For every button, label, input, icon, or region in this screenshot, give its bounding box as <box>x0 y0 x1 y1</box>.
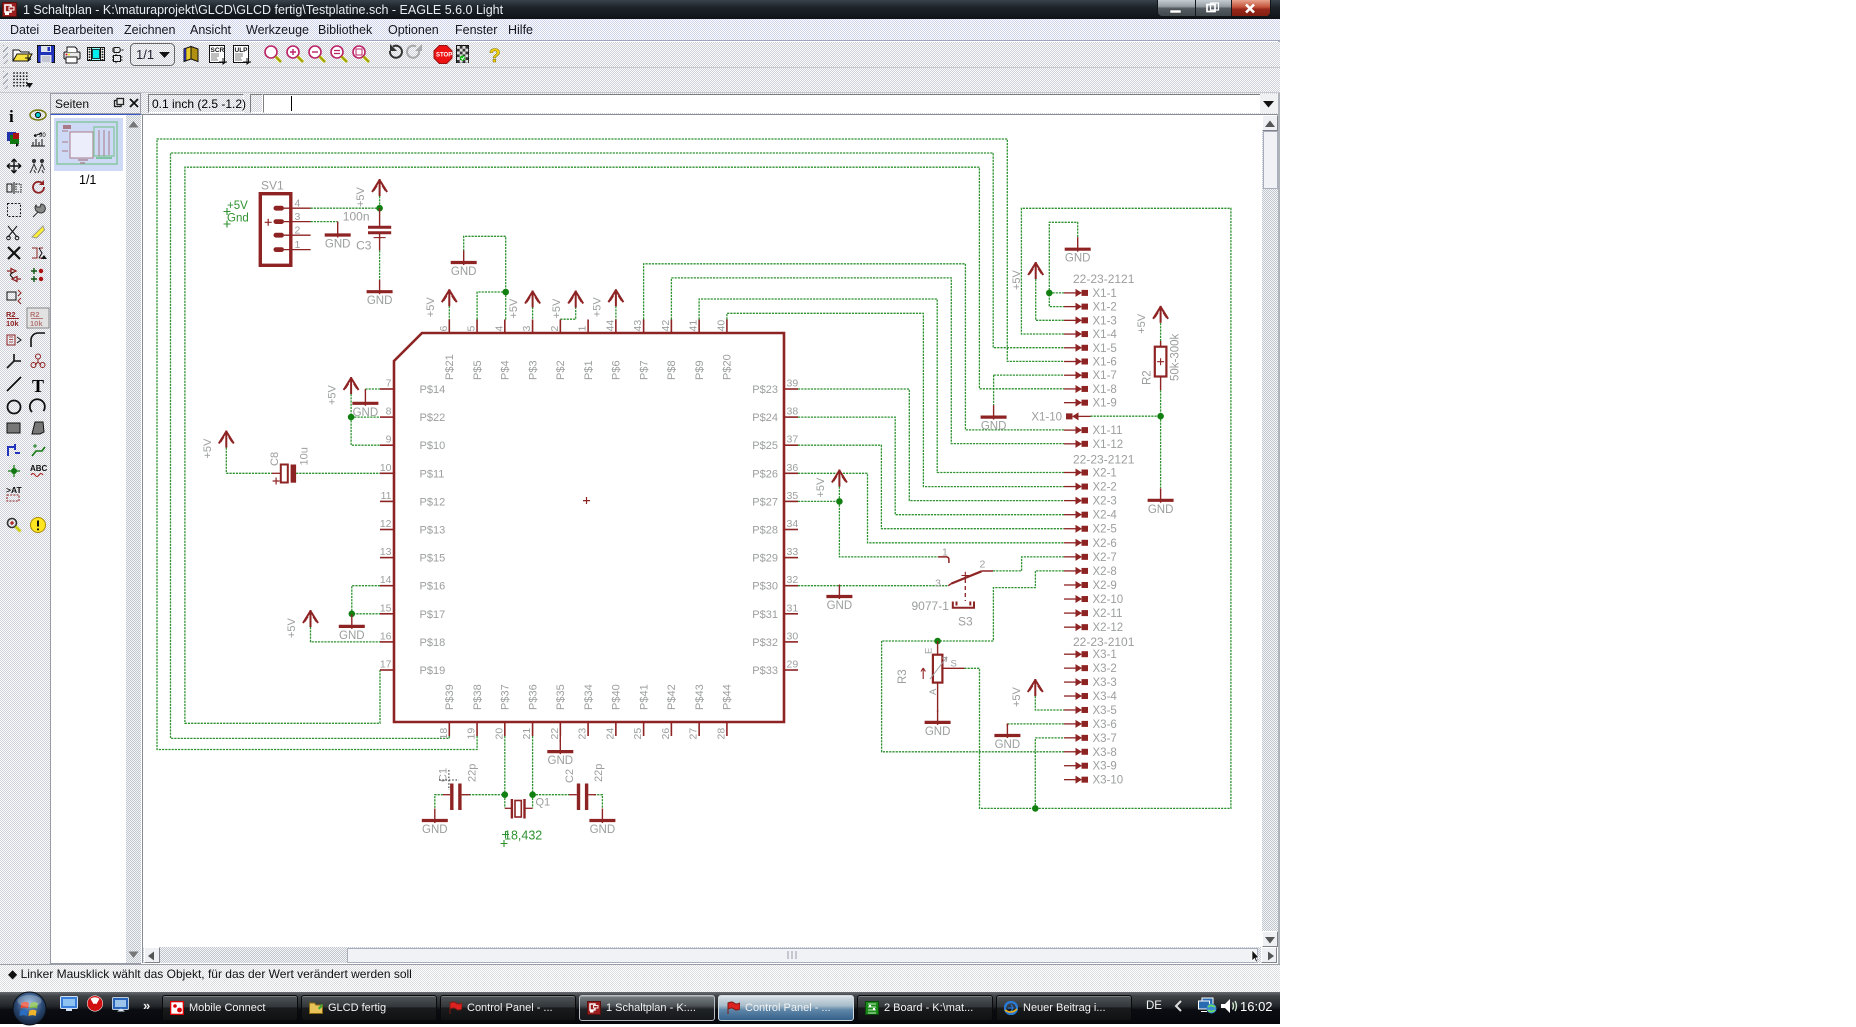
svg-text:X1-12: X1-12 <box>1093 439 1124 451</box>
svg-text:P$30: P$30 <box>752 581 778 593</box>
svg-text:14: 14 <box>380 574 392 586</box>
svg-text:P$26: P$26 <box>752 468 778 480</box>
ground at P$17 <box>339 614 365 642</box>
svg-text:X3-10: X3-10 <box>1093 775 1124 787</box>
svg-text:GND: GND <box>367 295 393 307</box>
+5V supply at P$22 <box>327 377 359 405</box>
svg-text:X2-10: X2-10 <box>1093 594 1124 606</box>
pin stubs U1 bottom <box>438 684 734 739</box>
svg-text:GND: GND <box>827 600 853 612</box>
svg-text:P$17: P$17 <box>420 609 446 621</box>
svg-text:R2: R2 <box>6 310 16 319</box>
+5V supply at P$2 <box>551 291 583 319</box>
svg-text:4: 4 <box>295 198 301 210</box>
junction GND P$17 <box>349 611 356 618</box>
svg-text:R2: R2 <box>30 310 40 319</box>
svg-text:X3-8: X3-8 <box>1093 747 1117 759</box>
svg-text:7: 7 <box>386 378 392 390</box>
+5V supply at X1-3 <box>1011 262 1043 290</box>
wire C3 to ground <box>379 250 381 280</box>
svg-text:P$5: P$5 <box>472 360 484 380</box>
+5V supply near P$27 <box>815 470 847 498</box>
junction V0 <box>1032 805 1039 812</box>
svg-text:i: i <box>9 107 14 126</box>
svg-text:GND: GND <box>451 266 477 278</box>
svg-text:S: S <box>951 659 957 670</box>
svg-text:X3-4: X3-4 <box>1093 691 1118 703</box>
wire net +5V P$21 <box>448 306 450 320</box>
capacitor C8 10u electrolytic <box>269 447 311 484</box>
wire net GND X3-6 <box>1007 723 1064 725</box>
svg-text:P$22: P$22 <box>420 412 446 424</box>
svg-text:P$33: P$33 <box>752 665 778 677</box>
capacitor C1 22p <box>438 764 479 810</box>
junction SV1-4 <box>376 205 383 212</box>
wire net GND SV1-3 <box>311 221 338 223</box>
+5V supply at X3-5 <box>1011 679 1043 707</box>
svg-text:X1-10: X1-10 <box>1031 411 1062 423</box>
svg-text:P$15: P$15 <box>420 553 446 565</box>
ground below C2 <box>589 809 615 837</box>
capacitor C3 100n <box>343 208 391 252</box>
svg-text:9077-1: 9077-1 <box>912 599 950 613</box>
svg-text:X3-1: X3-1 <box>1093 649 1117 661</box>
svg-text:X2-9: X2-9 <box>1093 580 1117 592</box>
svg-text:100n: 100n <box>343 210 370 224</box>
svg-text:3: 3 <box>935 578 941 590</box>
svg-text:24: 24 <box>604 728 616 740</box>
svg-text:25: 25 <box>632 728 644 740</box>
svg-text:1: 1 <box>577 326 589 332</box>
svg-text:X3-2: X3-2 <box>1093 663 1117 675</box>
ground above X1 <box>1065 237 1091 265</box>
svg-text:20: 20 <box>493 728 505 740</box>
transistor S3 switch 9077-1 <box>912 547 994 629</box>
svg-text:P$25: P$25 <box>752 440 778 452</box>
svg-text:43: 43 <box>632 320 644 332</box>
svg-text:>AT: >AT <box>6 485 22 495</box>
svg-text:GND: GND <box>925 726 951 738</box>
svg-text:T: T <box>32 376 44 396</box>
svg-text:38: 38 <box>787 406 799 418</box>
svg-text:18: 18 <box>438 728 450 740</box>
svg-text:+5V: +5V <box>202 438 214 459</box>
svg-text:3: 3 <box>521 326 533 332</box>
svg-text:P$12: P$12 <box>420 496 446 508</box>
svg-text:X3-9: X3-9 <box>1093 761 1117 773</box>
svg-text:X2-7: X2-7 <box>1093 552 1117 564</box>
wire C2 to ground <box>594 795 602 809</box>
svg-text:P$42: P$42 <box>666 684 678 710</box>
+5V supply at P$21 <box>425 289 457 317</box>
svg-text:X1-9: X1-9 <box>1093 398 1117 410</box>
wire net XTAL1 P$37 to Q1/C1 <box>504 736 506 795</box>
svg-text:Gnd: Gnd <box>227 213 249 225</box>
svg-text:1/1: 1/1 <box>136 47 154 62</box>
connector X1 22-23-2121 <box>1031 272 1134 451</box>
svg-text:34: 34 <box>787 518 799 530</box>
svg-text:X1-5: X1-5 <box>1093 343 1117 355</box>
svg-text:ABC: ABC <box>30 464 48 473</box>
ground at X1-7 <box>981 405 1007 433</box>
svg-text:22-23-2121: 22-23-2121 <box>1073 272 1135 286</box>
svg-text:15: 15 <box>380 602 392 614</box>
svg-text:16: 16 <box>380 630 392 642</box>
svg-text:P$32: P$32 <box>752 637 778 649</box>
svg-text:P$31: P$31 <box>752 609 778 621</box>
svg-text:P$29: P$29 <box>752 553 778 565</box>
svg-text:32: 32 <box>787 574 799 586</box>
svg-text:X2-6: X2-6 <box>1093 538 1117 550</box>
svg-text:X2-11: X2-11 <box>1093 608 1123 620</box>
svg-text:10k: 10k <box>30 319 43 328</box>
svg-text:22-23-2121: 22-23-2121 <box>1073 453 1135 467</box>
svg-text:X1-6: X1-6 <box>1093 357 1117 369</box>
ground at SV1-3 <box>325 223 351 251</box>
svg-text:P$7: P$7 <box>638 360 650 380</box>
wire net P$20 pin40 to X2-2 <box>727 313 1064 486</box>
junction +5V P$22 <box>348 414 355 421</box>
svg-text:?: ? <box>489 46 501 67</box>
svg-text:P$1: P$1 <box>583 360 595 380</box>
svg-text:41: 41 <box>688 320 700 332</box>
svg-text:X3-5: X3-5 <box>1093 705 1117 717</box>
svg-text:37: 37 <box>787 434 799 446</box>
svg-text:1: 1 <box>295 239 301 251</box>
svg-text:1: 1 <box>942 547 948 559</box>
pin stubs U1 right <box>752 378 798 678</box>
svg-text:C2: C2 <box>564 769 576 783</box>
svg-text:18,432: 18,432 <box>504 829 542 843</box>
svg-text:+5V: +5V <box>591 297 603 318</box>
svg-text:X1-11: X1-11 <box>1093 425 1123 437</box>
svg-text:31: 31 <box>787 602 799 614</box>
svg-text:39: 39 <box>787 378 799 390</box>
svg-text:R3: R3 <box>897 669 909 684</box>
wire net N$4 X1-10 R2 <box>1091 415 1161 417</box>
node +5V label at SV1 <box>224 200 249 215</box>
svg-text:GND: GND <box>981 421 1007 433</box>
wire net XTAL2 P$36 to Q1/C2 <box>532 736 534 795</box>
svg-text:P$14: P$14 <box>420 384 446 396</box>
+5V supply above C3 <box>355 179 387 207</box>
wire net P$9 pin41 to X2-1 <box>699 299 1064 473</box>
svg-text:X1-4: X1-4 <box>1093 329 1118 341</box>
svg-text:P$16: P$16 <box>420 581 446 593</box>
svg-text:X2-2: X2-2 <box>1093 482 1117 494</box>
svg-text:P$20: P$20 <box>722 354 734 380</box>
svg-text:GND: GND <box>590 824 616 836</box>
svg-text:8: 8 <box>386 406 392 418</box>
ground below P$30 wire <box>826 585 852 613</box>
svg-text:36: 36 <box>787 462 799 474</box>
+5V supply at P$3 <box>508 291 540 319</box>
wire net +5V X1-3 <box>1036 279 1064 320</box>
svg-text:X2-4: X2-4 <box>1093 510 1118 522</box>
junction XTAL2 <box>529 791 536 798</box>
wire net +5V P$18 <box>311 627 381 642</box>
wire net +5V P$22 P$10 <box>350 394 352 417</box>
resistor R2 50k-300k <box>1142 333 1182 390</box>
wire net +5V P$27 S3 pin1 <box>798 500 839 502</box>
wire net +5V P$6 <box>615 306 617 320</box>
svg-text:+5V: +5V <box>1136 313 1148 334</box>
wire net GND X1-7 <box>994 374 1064 376</box>
svg-text:Q1: Q1 <box>536 797 551 809</box>
svg-text:C3: C3 <box>356 239 372 253</box>
ground at P$14 <box>352 391 378 419</box>
svg-text:P$4: P$4 <box>500 360 512 380</box>
value label 18,432 <box>501 829 543 848</box>
svg-text:STOP: STOP <box>436 53 452 59</box>
svg-text:GND: GND <box>422 824 448 836</box>
svg-text:22-23-2101: 22-23-2101 <box>1073 635 1135 649</box>
svg-text:P$19: P$19 <box>420 665 446 677</box>
svg-text:+5V: +5V <box>1011 269 1023 290</box>
svg-text:+5V: +5V <box>327 384 339 405</box>
svg-text:40: 40 <box>715 320 727 332</box>
svg-text:+5V: +5V <box>286 617 298 638</box>
svg-text:+5V: +5V <box>355 186 367 207</box>
svg-text:P$41: P$41 <box>638 684 650 710</box>
svg-text:P$11: P$11 <box>420 468 445 480</box>
node Gnd label at SV1 <box>224 213 249 228</box>
wire net P$8 pin42 to X1-12 <box>671 278 1064 444</box>
svg-text:P$36: P$36 <box>527 684 539 710</box>
+5V supply at P$18 <box>286 610 318 638</box>
svg-text:+5V: +5V <box>425 297 437 318</box>
ground at X3-6 <box>994 724 1020 752</box>
svg-text:35: 35 <box>787 490 799 502</box>
svg-text:P$21: P$21 <box>444 354 456 380</box>
wire net GND P$5 P$4 <box>477 292 506 320</box>
wire net N$6 outer frame P$38 to X1-6 <box>157 139 1064 750</box>
svg-text:X1-3: X1-3 <box>1093 315 1117 327</box>
connector X2 22-23-2121 <box>1064 453 1135 635</box>
junction GND P$4 <box>502 289 509 296</box>
svg-text:6: 6 <box>438 326 450 332</box>
svg-text:19: 19 <box>466 728 478 740</box>
svg-text:22p: 22p <box>467 764 479 782</box>
wire net GND P$16 P$17 <box>352 586 380 614</box>
svg-text:X1-1: X1-1 <box>1093 288 1117 300</box>
svg-text:GND: GND <box>995 739 1021 751</box>
wire net N$3 X2-8 R3 top X3-8 <box>882 571 1064 641</box>
svg-text:10: 10 <box>380 462 392 474</box>
junction GND X1-1 <box>1046 290 1053 297</box>
svg-text:X3-6: X3-6 <box>1093 719 1117 731</box>
crystal Q1 18,432 <box>505 797 550 819</box>
svg-text:27: 27 <box>688 728 700 740</box>
svg-text:5: 5 <box>466 326 478 332</box>
svg-text:2: 2 <box>980 559 986 571</box>
svg-text:+5V: +5V <box>508 298 520 319</box>
wire net +5V X3-5 <box>1035 696 1064 710</box>
connector X3 22-23-2101 <box>1064 635 1135 787</box>
svg-text:4: 4 <box>493 326 505 332</box>
wire net N$2 S3 pin2 to X2-7 <box>993 557 1064 571</box>
svg-text:X1-2: X1-2 <box>1093 302 1117 314</box>
svg-text:17: 17 <box>380 659 392 671</box>
svg-text:X2-12: X2-12 <box>1093 622 1124 634</box>
wire net +5V P$2 <box>560 307 575 319</box>
svg-text:P$34: P$34 <box>583 684 595 710</box>
svg-text:44: 44 <box>604 320 616 332</box>
junction R3 E <box>934 638 941 645</box>
svg-text:GND: GND <box>325 239 351 251</box>
svg-text:42: 42 <box>660 320 672 332</box>
svg-text:22: 22 <box>549 728 561 740</box>
svg-text:30: 30 <box>787 630 799 642</box>
wire net V0 X1-4 / X3-7 / R3 wiper <box>964 208 1231 808</box>
svg-text:P$40: P$40 <box>611 684 623 710</box>
junction XTAL1 <box>502 791 509 798</box>
svg-text:22p: 22p <box>593 764 605 782</box>
ground below R2 <box>1148 488 1174 516</box>
svg-text:C8: C8 <box>269 452 281 466</box>
svg-text:12: 12 <box>380 518 392 530</box>
resistor R3 potentiometer <box>897 641 964 712</box>
pin stubs U1 left <box>380 378 445 678</box>
svg-text:P$43: P$43 <box>694 684 706 710</box>
svg-text:X2-3: X2-3 <box>1093 496 1117 508</box>
wire net N$8 inner frame P$19 to X1-8 <box>185 167 1064 723</box>
svg-text:9: 9 <box>386 434 392 446</box>
svg-text:X1-8: X1-8 <box>1093 384 1117 396</box>
svg-text:+5V: +5V <box>1011 686 1023 707</box>
svg-text:R2: R2 <box>1142 370 1154 385</box>
wire net P$26 pin36 to X2-6 <box>798 473 1064 543</box>
pin stubs U1 top <box>438 320 734 381</box>
svg-text:P$44: P$44 <box>722 684 734 710</box>
svg-text:2: 2 <box>549 326 561 332</box>
svg-text:P$9: P$9 <box>694 360 706 380</box>
svg-text:P$27: P$27 <box>752 496 778 508</box>
ground at P$4/P$5 <box>451 251 477 279</box>
svg-text:X3-3: X3-3 <box>1093 677 1117 689</box>
svg-text:P$37: P$37 <box>500 684 512 710</box>
svg-text:SV1: SV1 <box>261 179 284 193</box>
wire net N$5 middle frame P$39 to X1-5 <box>171 153 1065 738</box>
svg-text:X2-8: X2-8 <box>1093 566 1117 578</box>
wire net GND X1-1 X1-2 <box>1049 222 1077 306</box>
svg-text:P$23: P$23 <box>752 384 778 396</box>
svg-text:GND: GND <box>339 630 365 642</box>
svg-text:P$35: P$35 <box>555 684 567 710</box>
svg-text:X2-5: X2-5 <box>1093 524 1117 536</box>
ground below C1 <box>422 809 448 837</box>
svg-text:90: 90 <box>39 133 46 139</box>
svg-text:P$2: P$2 <box>555 360 567 380</box>
+5V supply above R2 <box>1136 306 1168 334</box>
svg-text:10u: 10u <box>299 447 311 465</box>
svg-text:P$6: P$6 <box>611 360 623 380</box>
ground bar P$35 <box>547 740 573 768</box>
svg-text:3: 3 <box>295 211 301 223</box>
svg-text:S3: S3 <box>958 615 973 629</box>
svg-text:P$10: P$10 <box>420 440 446 452</box>
wire C1 to ground <box>435 795 443 809</box>
wire net P$23 pin39 to X2-3 <box>798 389 1064 501</box>
wire net +5V P$3 <box>532 307 534 320</box>
svg-text:GND: GND <box>548 755 574 767</box>
svg-text:X1-7: X1-7 <box>1093 370 1117 382</box>
wire net P$7 pin43 to X1-11 <box>644 264 1064 430</box>
svg-text:A: A <box>928 688 939 695</box>
svg-text:P$3: P$3 <box>527 360 539 380</box>
svg-text:+5V: +5V <box>227 200 248 212</box>
wire net +5V SV1-4 to C3 <box>311 207 380 209</box>
capacitor C2 22p <box>564 764 605 810</box>
svg-text:50k-300k: 50k-300k <box>1170 333 1182 381</box>
wire net VCC C8 to P$11 <box>296 472 380 474</box>
wire net GND P$14 <box>365 388 380 390</box>
svg-text:P$38: P$38 <box>472 684 484 710</box>
+5V supply at P$6 <box>591 289 623 317</box>
svg-text:X2-1: X2-1 <box>1093 468 1117 480</box>
svg-text:29: 29 <box>787 659 799 671</box>
svg-text:P$8: P$8 <box>666 360 678 380</box>
svg-text:33: 33 <box>787 546 799 558</box>
svg-text:23: 23 <box>577 728 589 740</box>
svg-text:ULP: ULP <box>235 47 249 54</box>
ground below C3 <box>367 280 393 308</box>
svg-text:P$18: P$18 <box>420 637 446 649</box>
junction +5V P$27 <box>836 498 843 505</box>
connector SV1 <box>260 179 310 266</box>
svg-text:P$28: P$28 <box>752 525 778 537</box>
+5V supply at C8 <box>202 431 234 459</box>
svg-text:13: 13 <box>380 546 392 558</box>
svg-text:GND: GND <box>1065 253 1091 265</box>
svg-text:11: 11 <box>381 490 392 502</box>
wire net P$24 pin38 to X2-4 <box>798 417 1064 515</box>
wire net P$25 pin37 to X2-5 <box>798 445 1064 529</box>
wire net GND P$30 to S3 pin3 <box>798 585 948 587</box>
op-amp U1 44-pin QFP microcontroller body <box>394 333 784 722</box>
svg-text:E: E <box>924 648 935 654</box>
svg-text:26: 26 <box>660 728 672 740</box>
ground below R3 <box>925 710 951 738</box>
svg-text:21: 21 <box>521 728 533 740</box>
svg-text:10k: 10k <box>6 319 19 328</box>
svg-text:GND: GND <box>1148 504 1174 516</box>
svg-text:+5V: +5V <box>815 477 827 498</box>
svg-text:SCR: SCR <box>211 47 225 54</box>
svg-text:P$39: P$39 <box>444 684 456 710</box>
svg-text:28: 28 <box>715 728 727 740</box>
ground at P$35 <box>559 736 561 742</box>
svg-text:2: 2 <box>295 225 301 237</box>
svg-text:P$13: P$13 <box>420 525 446 537</box>
svg-text:X3-7: X3-7 <box>1093 733 1117 745</box>
svg-text:+5V: +5V <box>551 298 563 319</box>
svg-text:P$24: P$24 <box>752 412 778 424</box>
junction X1-10 R2 <box>1157 413 1164 420</box>
